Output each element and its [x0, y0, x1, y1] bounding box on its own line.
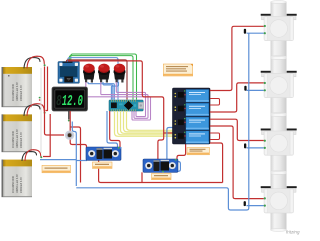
wire green1 module to nano [71, 54, 137, 100]
svg-text:18650 Li-ion 3.7V: 18650 Li-ion 3.7V [16, 82, 19, 101]
valve V1 [261, 2, 297, 57]
wire blue display to bus [72, 122, 76, 187]
wire red battery chain B1-B2 [46, 67, 48, 111]
note buck1 label [93, 162, 113, 169]
wire red buck2 to relay power [177, 144, 186, 161]
button S1 [83, 64, 95, 83]
button S3 [114, 64, 126, 83]
svg-text:fritzing: fritzing [286, 230, 300, 235]
svg-text:ICR18650 4000: ICR18650 4000 [12, 84, 15, 101]
valve V2 [261, 58, 297, 114]
wire purple button1 [86, 82, 151, 120]
wire blue module to nano [68, 58, 118, 100]
nano U1 [109, 100, 143, 111]
connector blob V1 [244, 29, 246, 34]
wire yellow nano-relay 3 [121, 111, 175, 133]
wire red bottom bus [99, 161, 223, 183]
wire purple button3 [116, 82, 145, 117]
wire blue valve stubs [247, 33, 265, 205]
wire red nano to buck1 [110, 111, 120, 147]
note top (wiring note) [163, 64, 192, 76]
svg-text:18650 Li-ion 3.7V: 18650 Li-ion 3.7V [16, 174, 19, 193]
buck converter M2 [143, 159, 178, 173]
button S2 [98, 64, 110, 83]
wire blue battery3 [40, 159, 76, 161]
connector blob V2 [244, 86, 246, 91]
connector blob V4 [244, 201, 246, 206]
wire blue button3 [111, 82, 118, 100]
wire gray balance [40, 68, 42, 153]
wire red relay gnd down to bus [210, 143, 223, 183]
wire yellow nano-relay 4 [124, 111, 175, 132]
svg-text:2000mAh 3.7V: 2000mAh 3.7V [20, 85, 23, 101]
wire blue buck1 left [76, 160, 87, 162]
svg-text:2000mAh 3.7V: 2000mAh 3.7V [20, 132, 23, 148]
connector blob V3 [244, 143, 246, 148]
battery B2 wires [24, 104, 46, 116]
valve V4 [261, 173, 297, 230]
svg-text:ICR18650 4000: ICR18650 4000 [12, 131, 15, 148]
battery B3 [2, 160, 33, 198]
module U2 (timer board) [58, 62, 79, 84]
wire red relay out pair jog 2 [210, 133, 220, 140]
svg-text:2000mAh 3.7V: 2000mAh 3.7V [20, 177, 23, 193]
wire yellow nano-relay 1 [115, 111, 175, 136]
wire red relay out pair jog 1 [210, 99, 220, 106]
wire yellow nano-relay 5 [127, 111, 175, 130]
wire red module to nano [66, 60, 127, 100]
note buck2 label [152, 174, 172, 180]
wire red relay2 to valve2 [210, 83, 264, 112]
wire red top bus to relay and buck2 [68, 61, 164, 160]
wire red relay4 to valve4 [210, 126, 264, 199]
battery B1 wires [24, 56, 46, 68]
buck converter M1 [86, 147, 122, 160]
wire purple button2 [101, 82, 148, 118]
wire blue relay to buck2 [167, 128, 181, 172]
pipe end caps [271, 1, 287, 232]
display wires bottom [68, 111, 70, 120]
connector dots pale wire [39, 97, 41, 99]
wire blue button2 [103, 82, 113, 100]
svg-text:18650 Li-ion 3.7V: 18650 Li-ion 3.7V [16, 129, 19, 148]
wire blue valve bus [76, 33, 249, 210]
note battery label [42, 165, 71, 173]
wire red buck2 to bus [141, 172, 143, 182]
wire green2 module to nano [69, 56, 133, 100]
wire red relay1 to valve1 [210, 26, 264, 90]
wire blue nano to buck1 [107, 111, 118, 147]
valve V3 [261, 115, 297, 172]
wire blue button1 [88, 82, 114, 100]
display DS1 voltmeter [52, 87, 88, 111]
wire red relay3 to valve3 [210, 119, 264, 140]
wire yellow nano-relay 2 [118, 111, 175, 135]
switch SW1 [65, 131, 74, 140]
note relay label [187, 148, 210, 155]
svg-text:ICR18650 4000: ICR18650 4000 [12, 176, 15, 193]
battery B2 [2, 114, 33, 152]
battery B3 wires [22, 150, 42, 161]
battery B1 [2, 67, 33, 107]
svg-text:12.0: 12.0 [61, 92, 84, 110]
wire red battery B1 to switch [45, 67, 65, 136]
relay module K1-K4 [173, 88, 211, 144]
wire red battery chain B2-B3 [43, 114, 50, 157]
